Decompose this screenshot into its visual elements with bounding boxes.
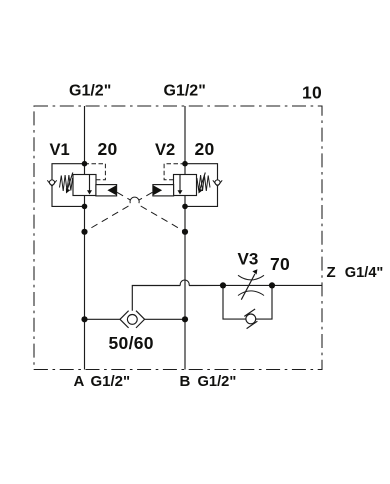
flow restrictor V3 (adjustable throttle) — [238, 269, 264, 299]
wire: V3 outlet to port Z — [272, 284, 322, 286]
bypass check valve of V3 (ball with seat) — [244, 309, 257, 329]
junction node: pilot tap on A line — [81, 229, 87, 235]
wire: shuttle outlet riser — [132, 286, 180, 311]
adjustment arrow of V2 spring — [198, 173, 205, 194]
pilot cross line: V1 pilot to node B, dashed (lower part) — [141, 206, 185, 232]
line hop at pilot crossing — [130, 197, 139, 203]
svg-text:G1/2": G1/2" — [198, 374, 237, 390]
wire: V1 bypass upper branch — [52, 164, 85, 180]
remote pilot piston of V2 — [153, 185, 174, 196]
wire: V3 inlet to outlet (through restrictor) — [223, 284, 272, 286]
pilot cross line: V1 pilot to node B, dashed (upper part) — [117, 192, 131, 200]
junction node: V1 bypass top — [82, 161, 88, 167]
svg-text:70: 70 — [270, 254, 290, 274]
counterbalance valve V1 body — [73, 175, 96, 196]
junction node: V2 bypass bottom — [182, 204, 188, 210]
wire: V3 bypass loop — [223, 285, 272, 319]
pilot line (internal) of V2, dashed — [164, 164, 185, 180]
svg-text:B: B — [180, 373, 191, 390]
enclosure boundary (manifold body 10) — [34, 106, 322, 370]
svg-text:10: 10 — [302, 82, 322, 102]
junction node: pilot tap on B line — [182, 229, 188, 235]
wire: V1 bypass lower branch — [52, 186, 85, 206]
svg-text:50/60: 50/60 — [109, 333, 154, 353]
svg-text:V3: V3 — [238, 250, 259, 269]
wire: top port G1/2" to V2 inlet — [184, 106, 186, 175]
svg-text:G1/2": G1/2" — [91, 373, 131, 390]
svg-text:V2: V2 — [155, 141, 175, 159]
junction node: V3 outlet — [269, 282, 275, 288]
junction node: V3 inlet — [220, 282, 226, 288]
svg-text:20: 20 — [195, 139, 215, 159]
svg-text:A: A — [74, 373, 85, 390]
junction node: V1 bypass bottom — [82, 204, 88, 210]
junction node: shuttle tap on A line — [81, 316, 87, 322]
svg-text:G1/4": G1/4" — [345, 265, 384, 281]
wire: V2 bypass lower branch — [185, 186, 218, 206]
svg-text:20: 20 — [98, 139, 118, 159]
counterbalance valve V2 body — [174, 175, 197, 196]
svg-text:V1: V1 — [50, 141, 70, 159]
svg-text:G1/2": G1/2" — [69, 83, 111, 100]
wire: shuttle line A side — [85, 318, 121, 320]
pilot cross line: V2 pilot to node A, dashed (upper part) — [139, 192, 153, 200]
check valve of V1 (ball) — [47, 180, 56, 186]
junction node: V2 bypass top — [182, 161, 188, 167]
svg-text:G1/2": G1/2" — [164, 83, 206, 100]
wire: V1 outlet to port A — [84, 196, 86, 370]
line hop over B wire — [180, 280, 189, 285]
shuttle valve 50/60 — [120, 311, 145, 328]
adjustment arrow of V1 spring — [66, 173, 73, 194]
check valve of V2 (ball) — [213, 180, 222, 186]
svg-text:Z: Z — [327, 264, 336, 281]
spring of V1 (adjustable) — [60, 175, 73, 191]
wire: V2 bypass upper branch — [185, 164, 218, 180]
spring of V2 (adjustable) — [197, 175, 210, 191]
wire: shuttle line B side — [145, 318, 185, 320]
wire: hop to V3 inlet node — [189, 284, 223, 286]
remote pilot piston of V1 — [96, 185, 117, 196]
wire: V2 outlet to port B — [184, 196, 186, 370]
pilot cross line: V2 pilot to node A, dashed (lower part) — [85, 206, 129, 232]
junction node: shuttle tap on B line — [182, 316, 188, 322]
pilot line (internal) of V1, dashed — [85, 164, 106, 180]
wire: top port G1/2" to V1 inlet — [84, 106, 86, 175]
